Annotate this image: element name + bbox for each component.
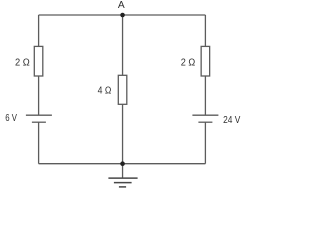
- ground bar 1 (widest): [108, 177, 137, 179]
- bottom junction dot: [120, 161, 125, 166]
- svg-text:2 Ω: 2 Ω: [181, 57, 196, 68]
- svg-text:A: A: [118, 0, 125, 11]
- resistor R2 4Ω body: [118, 75, 127, 104]
- svg-text:6 V: 6 V: [5, 113, 17, 124]
- resistor R3 2Ω body: [201, 46, 210, 76]
- wire left branch middle (R1 to battery V1): [38, 76, 40, 115]
- svg-text:2 Ω: 2 Ω: [15, 57, 30, 68]
- node A junction dot: [120, 13, 125, 18]
- wire ground stub (bottom junction to ground symbol): [122, 164, 124, 178]
- battery V1 6V long plate (+): [26, 114, 52, 116]
- wire right branch middle (R3 to battery V2): [204, 76, 206, 115]
- wire middle branch upper (node A to R2): [122, 15, 124, 75]
- ground bar 3 (shortest): [119, 186, 126, 188]
- wire middle branch lower (R2 to bottom junction): [122, 104, 124, 163]
- wire top rail (left branch to right branch through node A): [39, 14, 206, 16]
- resistor R1 2Ω body: [34, 46, 43, 76]
- wire left branch lower (V1 to bottom rail): [38, 122, 40, 164]
- wire right branch lower (V2 to bottom rail): [204, 122, 206, 164]
- battery V2 24V short plate (-): [198, 121, 212, 123]
- ground bar 2 (middle): [114, 182, 132, 184]
- battery V2 24V long plate (+): [192, 114, 218, 116]
- svg-text:4 Ω: 4 Ω: [98, 86, 112, 97]
- battery V1 6V short plate (-): [32, 121, 46, 123]
- wire bottom rail (left branch to right branch through bottom junction): [39, 163, 206, 165]
- wire left branch upper (top rail to R1): [38, 15, 40, 46]
- wire right branch upper (top rail to R3): [204, 15, 206, 46]
- svg-text:24 V: 24 V: [223, 115, 240, 126]
